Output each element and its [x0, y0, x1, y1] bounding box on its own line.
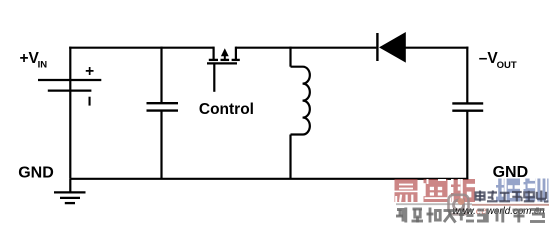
wire top rail middle segment — [236, 47, 377, 49]
wire inductor branch upper — [289, 47, 291, 67]
watermark underline gray — [396, 203, 472, 205]
inductor L1 — [291, 67, 310, 135]
watermark gray text dianzi gongcheng shijie — [476, 191, 549, 202]
svg-text:GND: GND — [493, 164, 529, 181]
watermark blue char xun — [524, 179, 549, 202]
wire input capacitor branch upper — [160, 47, 162, 103]
wire output branch lower — [466, 111, 468, 179]
wire inductor branch lower — [289, 135, 291, 179]
ground — [54, 179, 86, 203]
svg-text:+: + — [85, 63, 94, 80]
diode D1 — [377, 32, 405, 63]
label battery minus tick — [89, 97, 91, 106]
watermark red char di — [424, 179, 448, 202]
watermark logo d — [449, 195, 469, 215]
svg-text:OUT: OUT — [497, 60, 517, 71]
capacitor C2 — [452, 103, 483, 110]
watermark blue char pei — [496, 179, 520, 202]
wire top rail left segment — [69, 47, 213, 49]
svg-text:–V: –V — [479, 50, 499, 67]
svg-text:Control: Control — [199, 101, 254, 118]
wire output branch upper — [466, 47, 468, 103]
svg-text:IN: IN — [38, 60, 48, 71]
wire bottom rail — [70, 178, 468, 180]
wire input capacitor branch lower — [160, 111, 162, 179]
transistor Q1 — [207, 47, 240, 92]
watermark red char tuo — [451, 179, 475, 202]
watermark gray bottom row shepin tianxian sheji zhuanjia — [396, 208, 545, 223]
wire left vertical battery branch — [69, 47, 71, 179]
capacitor C1 — [147, 103, 179, 110]
watermark red char yi — [395, 179, 418, 202]
battery V1 — [38, 80, 101, 91]
svg-text:GND: GND — [18, 165, 54, 182]
wire top rail right segment — [406, 47, 469, 49]
watermark underline red — [472, 204, 549, 206]
svg-text:+V: +V — [20, 50, 40, 67]
